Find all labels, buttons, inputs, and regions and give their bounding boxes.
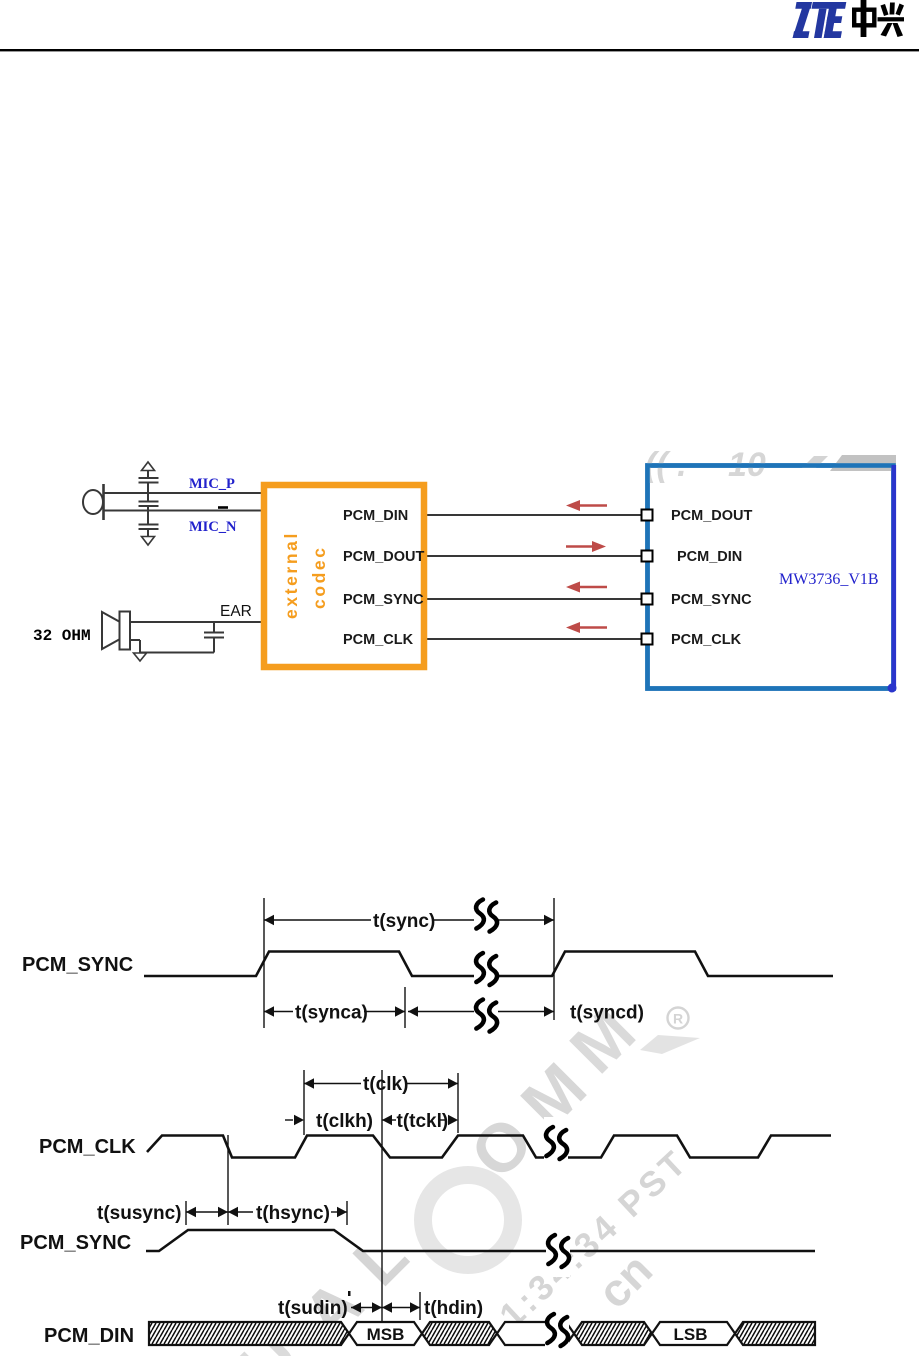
svg-text:PCM_CLK: PCM_CLK	[343, 632, 414, 648]
svg-text:PCM_DIN: PCM_DIN	[44, 1325, 134, 1347]
svg-text:PCM_SYNC: PCM_SYNC	[671, 592, 752, 608]
svg-text:MSB: MSB	[367, 1325, 405, 1344]
svg-text:t(hsync): t(hsync)	[256, 1203, 330, 1224]
svg-text:PCM_SYNC: PCM_SYNC	[343, 592, 424, 608]
svg-text:LSB: LSB	[674, 1325, 708, 1344]
svg-text:codec: codec	[309, 545, 329, 609]
svg-text:L: L	[339, 1217, 422, 1300]
svg-text:t(tckl): t(tckl)	[397, 1111, 449, 1132]
svg-text:external: external	[281, 531, 301, 619]
svg-text:t(sync): t(sync)	[373, 911, 435, 932]
svg-text:PCM_DOUT: PCM_DOUT	[343, 549, 425, 565]
svg-text:R: R	[673, 1011, 683, 1027]
svg-text:MW3736_V1B: MW3736_V1B	[779, 571, 879, 588]
svg-text:PCM_DIN: PCM_DIN	[677, 549, 742, 565]
svg-text:t(synca): t(synca)	[295, 1003, 368, 1024]
svg-text:t(syncd): t(syncd)	[570, 1003, 644, 1024]
svg-text:PCM_DOUT: PCM_DOUT	[671, 508, 753, 524]
svg-text:PCM_SYNC: PCM_SYNC	[22, 954, 133, 976]
svg-text:32 OHM: 32 OHM	[33, 627, 91, 645]
svg-text:t(clk): t(clk)	[363, 1074, 408, 1095]
svg-text:PCM_CLK: PCM_CLK	[671, 632, 742, 648]
svg-text:PCM_DIN: PCM_DIN	[343, 508, 408, 524]
svg-text:MIC_P: MIC_P	[189, 476, 235, 492]
svg-text:t(hdin): t(hdin)	[424, 1298, 483, 1319]
svg-text:MIC_N: MIC_N	[189, 519, 237, 535]
svg-text:PCM_CLK: PCM_CLK	[39, 1136, 136, 1158]
svg-text:t(susync): t(susync)	[97, 1203, 181, 1224]
svg-text:EAR: EAR	[220, 603, 252, 620]
svg-text:t(sudin): t(sudin)	[278, 1298, 348, 1319]
svg-text:t(clkh): t(clkh)	[316, 1111, 373, 1132]
svg-text:PCM_SYNC: PCM_SYNC	[20, 1232, 131, 1254]
